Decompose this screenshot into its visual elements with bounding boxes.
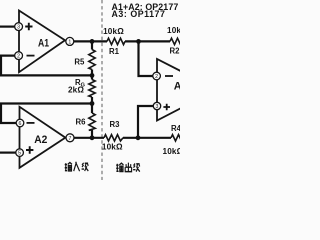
- svg-text:R5: R5: [74, 58, 85, 67]
- resistor R4 zigzag: [171, 135, 183, 141]
- resistor RG zigzag: [89, 80, 95, 98]
- node dot R5/RG: [90, 73, 95, 78]
- op-amp A1 triangle: [19, 11, 65, 73]
- wire RG leads: [91, 75, 93, 79]
- wire A1 output to R1: [74, 40, 107, 42]
- svg-text:7: 7: [69, 136, 72, 142]
- resistor R2 zigzag: [170, 38, 182, 44]
- wire A1 -input feedback loop to node R5/RG: [1, 56, 92, 76]
- wire junction to A3 non-inverting input: [138, 106, 153, 138]
- wire A2 output to R3: [74, 137, 104, 139]
- svg-text:10kΩ: 10kΩ: [163, 147, 181, 156]
- char shu: [116, 164, 118, 172]
- svg-text:A3: OP1177: A3: OP1177: [112, 9, 166, 19]
- char chu (out): [125, 163, 131, 172]
- A3 pin 2 circle: [153, 72, 161, 80]
- op-amp A2 triangle: [20, 107, 66, 168]
- char ji (grade): [82, 163, 89, 171]
- output stage label "shu chu ji" drawn strokes: [116, 163, 140, 172]
- svg-text:R2: R2: [170, 46, 180, 55]
- svg-text:6: 6: [19, 121, 22, 127]
- A3 pin 3 circle: [153, 102, 160, 109]
- char ru (enter): [74, 162, 80, 171]
- A1 minus sign: [27, 55, 35, 57]
- A2 pin 6 circle: [16, 119, 24, 127]
- svg-text:A3: A3: [174, 81, 180, 93]
- svg-text:1: 1: [68, 39, 71, 45]
- svg-text:R4: R4: [171, 124, 180, 133]
- A1 plus sign: [25, 23, 32, 31]
- svg-text:2: 2: [155, 74, 158, 80]
- A1 pin 3 circle: [15, 23, 23, 31]
- A3 plus sign: [163, 104, 170, 111]
- svg-text:A2: A2: [34, 134, 47, 146]
- wire A2 +input from left edge: [0, 152, 16, 154]
- node dot A2out/R3/R6: [90, 135, 95, 140]
- svg-text:10kΩ: 10kΩ: [167, 26, 180, 35]
- A2 pin 7 output circle: [66, 134, 74, 142]
- wire R6 leads: [91, 104, 93, 114]
- wire R3 to R4 segment: [123, 137, 171, 139]
- wire R1 to R2 segment: [125, 40, 170, 42]
- svg-text:R3: R3: [110, 120, 121, 129]
- node dot R3/R4/A3+: [136, 135, 141, 140]
- svg-text:5: 5: [18, 151, 21, 157]
- wire junction to A3 inverting input: [139, 41, 153, 76]
- wire A1 +input from left edge: [0, 26, 15, 28]
- resistor R1 zigzag: [107, 38, 125, 44]
- A3 minus sign: [165, 75, 173, 77]
- svg-text:3: 3: [156, 104, 159, 110]
- stage separator dashed line: [101, 0, 103, 180]
- wire A2 -input loop to node RG/R6: [1, 104, 92, 124]
- svg-text:10kΩ: 10kΩ: [103, 27, 124, 36]
- A1 pin 2 circle: [15, 52, 23, 60]
- svg-text:3: 3: [17, 25, 20, 31]
- A2 minus sign: [27, 122, 35, 124]
- node dot RG/R6: [90, 101, 95, 106]
- svg-text:2kΩ: 2kΩ: [68, 85, 84, 94]
- svg-text:R6: R6: [76, 118, 87, 127]
- resistor R6 zigzag: [89, 113, 95, 130]
- svg-text:A1: A1: [38, 38, 50, 50]
- resistor R3 zigzag: [104, 135, 123, 141]
- wire R5 column leads: [91, 41, 93, 49]
- resistor R5 zigzag: [89, 50, 95, 70]
- char ji: [133, 163, 140, 171]
- svg-text:10kΩ: 10kΩ: [102, 143, 123, 152]
- A2 pin 5 circle: [16, 149, 24, 157]
- node dot A1out/R1/R5: [90, 39, 95, 44]
- char shu (vehicle radical + yu): [65, 163, 67, 171]
- node dot R1/R2/A3-: [136, 39, 141, 44]
- A2 plus sign: [26, 146, 33, 154]
- svg-text:R1: R1: [109, 47, 120, 56]
- A1 pin 1 output circle: [66, 37, 74, 45]
- op-amp A3 triangle (clipped at right edge): [157, 59, 217, 121]
- input stage label "shu ru ji" drawn strokes: [65, 162, 89, 171]
- svg-text:2: 2: [17, 54, 20, 60]
